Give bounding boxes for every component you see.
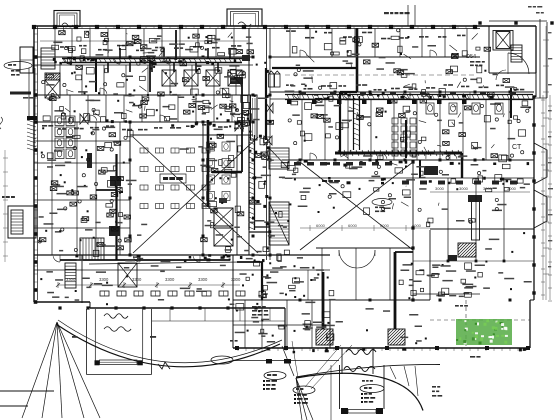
top-right big door arc (508, 53, 529, 74)
vestibule side walls (341, 348, 343, 374)
duct vertical x96 (95, 58, 97, 92)
hall dim line y228 (300, 223, 430, 231)
svg-text:3000: 3000 (459, 186, 469, 191)
top-right corner dimension text (528, 6, 544, 14)
left edge break marks (0, 117, 3, 129)
entrance hall wall x430 (429, 230, 431, 300)
elevator shaft 1 (214, 208, 233, 226)
left wing FCU dark box A (110, 176, 121, 186)
corridor wall y270 (34, 269, 285, 271)
capsule duct center (251, 95, 258, 140)
left wall hatch strip (27, 120, 36, 151)
entrance hall left wall x330 (329, 300, 331, 348)
dashed vertical bottom-right (465, 300, 467, 348)
duct drop center x262 (261, 262, 263, 300)
dim text rows left of block (470, 61, 474, 63)
corridor rooms 285-330 (307, 270, 309, 300)
waiting hall FCU seat grid (140, 148, 210, 209)
duct vertical entrance right (394, 252, 397, 329)
right dimension strip lines (541, 95, 552, 301)
callout ellipse 3 (360, 385, 384, 393)
dashed line bottom-right lobby (430, 319, 530, 321)
left margin text rows (11, 70, 20, 76)
right hall X brace (300, 162, 413, 250)
svg-text:3300: 3300 (198, 277, 208, 282)
right block room walls y160-230 (447, 178, 449, 261)
hall label text (322, 180, 327, 182)
center corridor wall left (248, 28, 250, 255)
left protruding block upper (20, 47, 33, 73)
wall y255 bottom-left strip top (34, 254, 330, 256)
core toilets column x206-232 (207, 142, 231, 201)
hall callout oval (372, 199, 392, 206)
svg-text:3300: 3300 (66, 277, 76, 282)
svg-text:3300: 3300 (132, 277, 142, 282)
wall h4 left y122 (34, 121, 253, 123)
plinth dark block a (266, 359, 272, 364)
main duct vertical x208 (207, 120, 210, 207)
toilet fixtures column left wall (55, 116, 75, 159)
left porch pad left (95, 360, 100, 365)
main duct horizontal right wing (335, 150, 462, 156)
left margin dim line (3, 150, 8, 262)
duct elbow top-left (149, 60, 151, 92)
outer top wall (34, 25, 480, 27)
clutter halls sparse (216, 234, 224, 236)
mid-bottom wall y300 center (233, 299, 430, 301)
clutter top-left block (208, 35, 215, 38)
right side bay window upper (534, 143, 547, 184)
right side bay window lower (534, 190, 547, 228)
left hall top wall y135 (130, 134, 253, 136)
vertical hatched duct right wing x356 (354, 96, 360, 150)
grille boxes corridor right wing (300, 92, 516, 95)
AHU capsules center (269, 71, 281, 87)
bold duct y68 to right wing (272, 67, 357, 69)
svg-text:3300: 3300 (99, 277, 109, 282)
bottom strip stair A (80, 238, 104, 260)
top bump B nested porch (227, 9, 262, 26)
dark AHU cluster right wing (448, 243, 476, 261)
left entrance label (10, 92, 31, 95)
right rooms wall y229 (430, 228, 534, 230)
bottom strip wall x82 (81, 255, 83, 303)
left protruding block lower (8, 206, 36, 238)
text band top-right y30-40 (286, 30, 466, 39)
H= labels under canopy (72, 336, 77, 338)
left vestibule squiggle door upper (104, 314, 128, 319)
toilet stall block right wing (392, 118, 416, 156)
outer left wall (33, 26, 35, 302)
outer right wall upper (535, 73, 537, 97)
duct elbow entrance right top (395, 251, 413, 253)
clutter right mid rooms (405, 185, 408, 188)
svg-text:3000: 3000 (507, 186, 517, 191)
text cluster inside vestibule (361, 380, 375, 403)
text cluster below entrance left (252, 306, 268, 316)
clutter left column rooms (74, 248, 77, 251)
porch corner pad left (341, 408, 348, 414)
damper pair wall y122 (80, 114, 88, 124)
text cluster bottom right of canopy (432, 386, 442, 397)
fancoil row bottom strip (100, 291, 245, 296)
left column rooms walls (34, 140, 130, 142)
center corridor wall right (266, 28, 268, 260)
top-right block outline (480, 25, 536, 27)
elevator lobby dark box (219, 198, 227, 203)
window ticks left wall (34, 34, 38, 290)
top-left block room walls (54, 29, 56, 58)
corridor inner wall x237 (236, 135, 238, 255)
consult rooms verticals (321, 248, 323, 300)
bottom strip elevator (118, 263, 137, 287)
left canopy arc (56, 324, 280, 367)
left wing duct branch y190 (96, 189, 117, 191)
fire damper bowtie C (264, 136, 272, 145)
text cluster below oval 1 (263, 380, 277, 390)
green watermark logo (456, 319, 512, 345)
bold duct below block x511 (510, 88, 512, 118)
bottom wall center section (233, 347, 530, 349)
left wing riser duct x116 (115, 154, 117, 260)
duct branch stubs top-left (108, 48, 230, 72)
fire damper bowtie B (266, 103, 273, 113)
dark hatched box center-left (230, 77, 243, 84)
top-right stair (511, 45, 522, 62)
top-right room walls second row (301, 99, 303, 160)
clutter escalator zone (278, 255, 281, 261)
hatched duct center vertical (249, 135, 270, 232)
duct horizontal y262 center (237, 261, 262, 263)
wall h3 left y95 (34, 94, 253, 96)
AHU box right of entrance (388, 329, 405, 345)
duct right block x420 (419, 160, 421, 178)
wall x233 vertical (232, 255, 234, 348)
small text left of oval b (230, 340, 233, 342)
left canopy fan lines (22, 322, 57, 418)
center canopy spokes (390, 367, 396, 380)
center canopy inner edge (296, 364, 440, 377)
duct right wing x462 down (461, 153, 463, 178)
callout ellipse 2 (293, 386, 315, 394)
upper-right corridor y95 (270, 91, 534, 93)
clutter top-right rooms (412, 84, 416, 88)
left hall X brace (133, 137, 258, 253)
left porch inner verticals (94, 309, 96, 361)
door swing arcs (53, 50, 470, 262)
left ramp door block (27, 116, 37, 120)
plinth dark block b (284, 359, 291, 364)
bold equipment box right wing (424, 166, 438, 175)
bottom wall left section (34, 301, 90, 303)
fancoil row below wall y160 (294, 162, 392, 166)
dimension row bottom-left strip (56, 277, 241, 288)
duct horizontal top-left corridor (62, 59, 242, 63)
text band left wing y124-133 (42, 124, 244, 130)
left bottom legend lines (0, 390, 54, 392)
main duct vertical center (241, 84, 243, 172)
ladder duct corridor right wing (285, 95, 533, 100)
bottom strip ramp line (89, 262, 240, 264)
interior column grid (129, 56, 132, 59)
svg-text:3300: 3300 (165, 277, 175, 282)
canopy leader lines (292, 341, 298, 378)
dashed corridor line right wing (285, 74, 475, 76)
duct vertical right wing x357 (356, 28, 359, 92)
columns top-right block (478, 21, 481, 24)
clutter entrance lobby sparse (366, 308, 374, 310)
left margin callout oval (4, 62, 32, 70)
left rooms divider x130 (129, 122, 131, 255)
dark box center top (242, 55, 250, 61)
text band top-left y44-52 (60, 45, 241, 51)
top-right room walls upper row (289, 29, 291, 58)
top bump A nested porch (54, 11, 80, 27)
left porch outer box (86, 309, 88, 375)
top-right elevator shaft (493, 31, 513, 51)
top-right small door arc (496, 70, 506, 80)
elevator shaft 2 (214, 228, 233, 246)
top row shelf line (40, 40, 248, 42)
vestibule side wall left (339, 365, 341, 409)
revolving door squiggle lower (344, 367, 375, 372)
duct bottom-left strip (60, 259, 230, 261)
columns bottom-left wall (58, 306, 61, 309)
AHU box left of entrance (316, 329, 333, 345)
callout ellipse 1 (264, 372, 286, 380)
corridor inner wall x203 (202, 122, 204, 255)
bottom strip stair B (65, 263, 76, 288)
porch corner pad right (376, 408, 383, 414)
left hall label (160, 174, 186, 183)
duct top-left block vertical (175, 30, 177, 60)
columns top wall (32, 25, 36, 29)
left wing bold stub (87, 153, 92, 168)
svg-text:6000: 6000 (316, 223, 326, 228)
svg-text:CT: CT (512, 144, 522, 151)
center canopy left fan (296, 378, 302, 420)
svg-text:3000: 3000 (435, 186, 445, 191)
AHU boxes upper-left row2 (162, 70, 242, 86)
capsule duct right wing x475 (468, 195, 482, 240)
duct elbow right wing (340, 91, 357, 93)
double door arcs consult (339, 250, 357, 268)
upper-right wall y57 (270, 56, 480, 58)
bottom center room walls (244, 300, 246, 348)
porch step bar (348, 410, 376, 414)
main duct vertical x266 bold (265, 68, 267, 140)
window ticks entrance wall (238, 348, 518, 351)
canopy break kink (158, 362, 170, 369)
escalator upper band (269, 148, 289, 169)
canopy joint line (282, 346, 294, 376)
upper-right corridor y180 (282, 177, 534, 179)
revolving door squiggle upper (346, 350, 376, 355)
bold duct right wing x406 (405, 120, 407, 158)
clutter right lower rooms (412, 281, 421, 283)
columns x413 wall (411, 160, 414, 163)
consult rooms wall y248 (316, 247, 413, 249)
left wing FCU dark box B (109, 226, 120, 236)
columns left wall (34, 55, 38, 59)
dimension marks right outside (543, 26, 553, 300)
plan title text top (384, 12, 389, 14)
steps edge below bottom wall (152, 320, 285, 322)
escalator lower band (269, 202, 289, 245)
center canopy outer arc (296, 373, 423, 410)
hall right wall x413 (412, 160, 414, 300)
column row right wing y102 (287, 100, 467, 105)
left ramp double lines (28, 68, 30, 117)
dimension row right rooms (430, 186, 530, 192)
right rooms wall y294 (413, 293, 480, 295)
clutter bottom center rooms (316, 326, 326, 328)
upper-right wall y160 (282, 159, 534, 161)
text cluster below oval 2 (294, 394, 308, 404)
duct vertical entrance left (322, 272, 325, 329)
text band right wing y84-91 (286, 84, 524, 90)
corridor wall h2 upper-left (34, 64, 253, 66)
left vestibule squiggle door lower (104, 327, 131, 332)
wall x331 below entrance (330, 365, 332, 420)
left porch pad right (137, 360, 143, 365)
clutter center corridor (231, 239, 233, 241)
svg-text:3300: 3300 (231, 277, 241, 282)
clutter bottom-left strip (124, 267, 129, 269)
right rooms wall y261 (413, 260, 534, 262)
vestibule side wall right (383, 365, 385, 409)
left exterior stair (41, 48, 55, 69)
columns bottom entrance wall (235, 346, 239, 350)
entrance plinth line y360 (233, 360, 339, 362)
fancoil row right wing corridor (402, 181, 517, 185)
left porch step bar (100, 360, 138, 365)
fire damper bowtie A (235, 121, 243, 131)
svg-text:6000: 6000 (348, 223, 358, 228)
window ticks top wall (58, 26, 474, 29)
text cluster right lower (455, 305, 459, 307)
top-right outer frame (539, 19, 541, 98)
bathroom fixtures upper right rooms (426, 103, 503, 114)
corridor dark confetti (53, 57, 529, 353)
callout ellipse bottom-left b (211, 356, 233, 364)
left wall shaft hatch (45, 73, 60, 80)
columns right wall (532, 95, 535, 98)
corridor wall h1 upper-left (34, 56, 253, 58)
left wall elevator xbox (45, 80, 60, 98)
